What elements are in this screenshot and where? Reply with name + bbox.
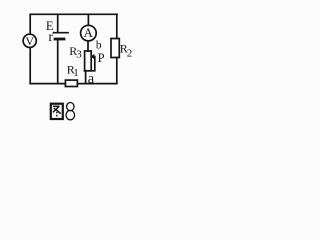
svg-text:r: r (48, 30, 53, 45)
svg-text:b: b (96, 39, 102, 51)
svg-text:3: 3 (76, 48, 82, 60)
svg-text:V: V (25, 34, 34, 48)
svg-text:A: A (84, 25, 94, 40)
svg-text:1: 1 (73, 67, 79, 79)
svg-text:2: 2 (127, 47, 133, 59)
svg-text:P: P (98, 51, 105, 65)
svg-text:a: a (88, 71, 95, 87)
